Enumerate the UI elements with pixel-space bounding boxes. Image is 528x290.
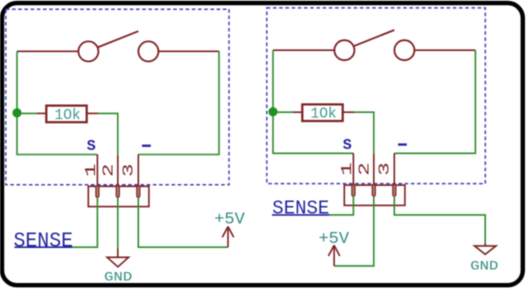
wire: J2 pin1 to SENSE (green) — [330, 196, 354, 215]
wire: right circuit right vertical (green) — [394, 50, 475, 153]
wire: right circuit top left horizontal (red) — [273, 49, 334, 51]
connector J2 pad 2 — [372, 184, 375, 196]
resistor R1 lead right — [87, 112, 98, 114]
resistor R2 lead left — [293, 111, 302, 113]
connector J1 pad 3 — [137, 186, 140, 198]
connector J2 body — [344, 185, 405, 205]
svg-text:GND: GND — [104, 270, 132, 285]
svg-text:S: S — [343, 137, 352, 154]
svg-text:+5V: +5V — [214, 210, 245, 229]
power symbol +5V arrow — [222, 227, 233, 248]
dashed box left — [6, 9, 229, 185]
svg-text:3: 3 — [121, 164, 138, 178]
pin line 3 — [137, 155, 139, 187]
svg-text:SENSE: SENSE — [272, 197, 329, 219]
svg-text:+5V: +5V — [318, 230, 349, 249]
pin line 2 — [117, 155, 119, 186]
resistor R2 lead right — [343, 111, 354, 113]
pin line 2 (J2) — [373, 154, 375, 185]
power symbol +5V arrow (right) — [328, 245, 339, 266]
wire: resistor to pin2 (green) — [98, 113, 118, 155]
label SENSE underline — [15, 246, 73, 248]
wire: resistor2 to pin2 (green) — [354, 112, 374, 154]
label minus — [142, 145, 151, 147]
label minus (right) — [398, 143, 407, 145]
node junction 2 — [268, 107, 277, 116]
svg-text:3: 3 — [376, 162, 393, 176]
resistor R1 lead left — [37, 112, 46, 114]
svg-text:1Ok: 1Ok — [311, 107, 337, 123]
wire: pin2 to GND (green) — [117, 197, 119, 248]
svg-text:1: 1 — [339, 162, 356, 176]
wire: right circuit left vertical (green) — [273, 50, 353, 153]
ground GND2 — [475, 244, 497, 255]
wire: left top horizontal (red) — [17, 50, 78, 52]
wire: node to resistor (green) — [17, 112, 37, 114]
switch SW1 — [78, 31, 158, 61]
connector J1 body — [88, 186, 149, 206]
connector J2 pad 1 — [352, 184, 355, 196]
pin line 1 (J2) — [352, 153, 354, 185]
pin line 1 — [96, 155, 98, 187]
switch SW2 — [334, 30, 414, 60]
resistor R1 — [46, 106, 86, 123]
node junction — [12, 108, 21, 117]
connector J2 pad 3 — [393, 184, 396, 196]
svg-text:2: 2 — [101, 164, 118, 178]
wire: switch right to corner (red) — [158, 50, 219, 52]
ground GND1 — [107, 248, 129, 267]
wire: J2 pin2 to +5V (green) — [334, 196, 374, 266]
svg-text:SENSE: SENSE — [14, 231, 74, 254]
svg-text:1: 1 — [83, 164, 100, 178]
pin line 3 (J2) — [393, 153, 395, 185]
svg-text:GND: GND — [470, 258, 498, 273]
wire: right vertical (green) — [138, 51, 219, 154]
svg-text:S: S — [87, 138, 96, 155]
wire: left vertical (green) — [17, 51, 97, 154]
dashed box right — [267, 8, 486, 184]
connector J1 pad 2 — [116, 186, 119, 198]
connector J1 pad 1 — [96, 186, 99, 198]
label SENSE underline (right) — [272, 214, 330, 216]
resistor R2 — [302, 104, 342, 121]
wire: pin1 to SENSE (green) — [72, 197, 97, 247]
wire: switch2 right to corner (red) — [414, 49, 475, 51]
svg-text:1Ok: 1Ok — [55, 108, 81, 124]
wire: node2 to resistor (green) — [273, 111, 293, 113]
wire: pin3 to +5V (green) — [138, 197, 228, 247]
wire: J2 pin3 to GND (green) — [394, 196, 485, 243]
svg-text:2: 2 — [357, 162, 374, 176]
